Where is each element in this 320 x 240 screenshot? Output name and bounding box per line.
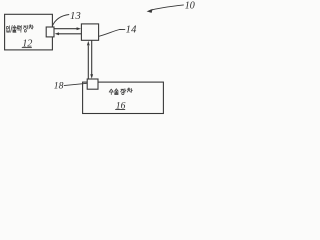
reference numeral 16 underlined xyxy=(115,101,125,112)
leader line for label 18 xyxy=(64,83,87,85)
wire 14 to 18 (right vertical, arrow down) xyxy=(91,40,93,74)
arrowhead right (top wire into 14) xyxy=(77,27,81,30)
arrowhead down (right vertical into 18) xyxy=(90,74,93,79)
svg-text:18: 18 xyxy=(54,81,64,92)
wire arrow 13 to 14 (top horizontal) xyxy=(54,28,77,30)
block 16 (surgical device box) xyxy=(83,82,164,113)
svg-text:10: 10 xyxy=(185,1,195,12)
wire arrow 14 to 13 (bottom horizontal) xyxy=(59,33,82,35)
arrowhead left (bottom wire into 13) xyxy=(55,32,59,35)
leader arrow for label 10 xyxy=(150,5,184,11)
arrowhead of reference 10 xyxy=(147,9,153,13)
block 14 box xyxy=(81,24,98,40)
wire 18 to 14 (left vertical, arrow up) xyxy=(87,46,89,80)
arrowhead up (left vertical into 14) xyxy=(87,41,90,46)
block 18 small box on top edge of block 16 xyxy=(87,79,98,89)
leader line for label 13 xyxy=(52,15,69,27)
svg-text:14: 14 xyxy=(126,25,138,36)
svg-text:13: 13 xyxy=(70,11,81,22)
reference numeral 12 underlined xyxy=(22,39,33,50)
block 12 (I/O device box) xyxy=(5,14,53,50)
korean text block 16: 수술 장치 xyxy=(109,88,132,94)
leader line for label 14 xyxy=(99,29,125,36)
block 13 small box on right edge of block 12 xyxy=(46,27,54,37)
korean text block 12: 입/출력 장치 xyxy=(6,25,33,32)
